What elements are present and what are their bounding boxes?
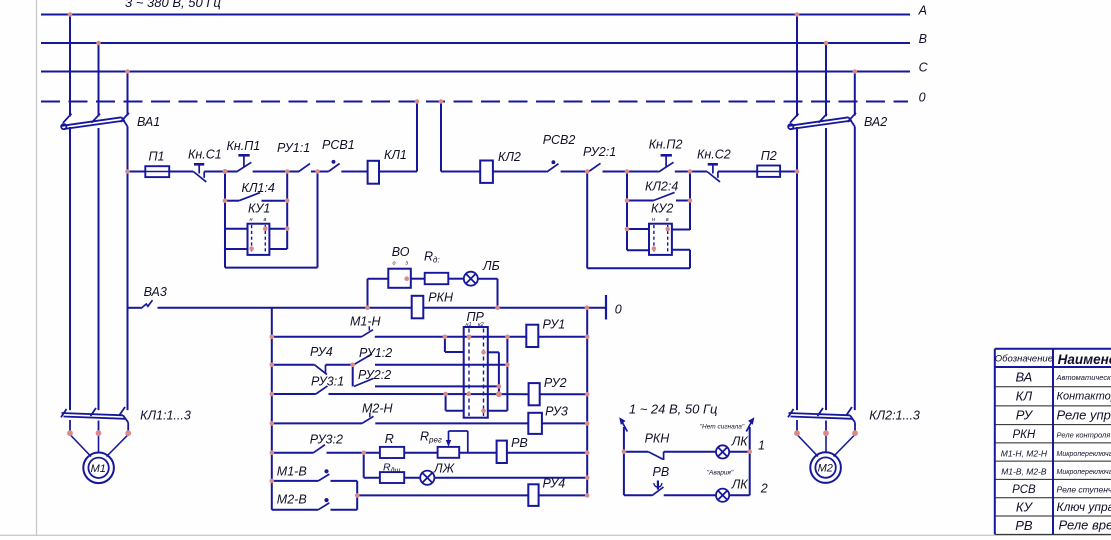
svg-text:Кн.С1: Кн.С1 xyxy=(188,148,222,162)
frame border gray vertical xyxy=(36,0,38,535)
switch VA3 xyxy=(128,300,153,308)
svg-text:ВА: ВА xyxy=(1015,369,1032,384)
svg-text:РУ1:2: РУ1:2 xyxy=(359,346,392,360)
resistor R xyxy=(380,447,404,458)
wire riser to KL2 xyxy=(441,171,480,173)
svg-text:РУ3: РУ3 xyxy=(545,405,568,419)
svg-text:РКН: РКН xyxy=(645,432,671,446)
motor M2 xyxy=(810,452,841,483)
lamp LK1 xyxy=(716,445,729,458)
contact RU2:2 branch xyxy=(353,365,499,387)
lamp LZh xyxy=(420,471,434,485)
svg-text:Ключ управления: Ключ управления xyxy=(1057,500,1111,514)
svg-text:Реле контроля напряжения: Реле контроля напряжения xyxy=(1057,431,1111,440)
wire RU1:1 to node xyxy=(311,171,329,173)
wire left bus xyxy=(271,308,273,510)
wire LB to right riser xyxy=(478,278,498,280)
wire BA1 to KL1 pole B xyxy=(98,128,100,410)
contact M1-N row xyxy=(272,326,527,337)
wire LK2 to right riser xyxy=(729,494,750,496)
wire KU1 bottom loop xyxy=(225,267,318,269)
svg-text:РУ4: РУ4 xyxy=(543,477,566,491)
wire 0-row xyxy=(158,307,607,309)
contact RU1:2 xyxy=(354,354,507,365)
contact M2-V row xyxy=(272,499,357,510)
wire motor M1 leads xyxy=(70,435,91,457)
svg-text:РКН: РКН xyxy=(428,291,454,305)
mode switch PR box xyxy=(464,327,488,418)
svg-text:ВА2: ВА2 xyxy=(864,115,887,129)
wire VO loop left xyxy=(368,278,389,280)
svg-text:Rрег: Rрег xyxy=(420,430,442,445)
component table xyxy=(995,349,1111,535)
svg-text:РУ3:2: РУ3:2 xyxy=(310,433,343,447)
coil KL1 xyxy=(368,161,379,184)
wire PR left-bottom stub xyxy=(446,394,464,411)
wire RU4 to bus xyxy=(539,494,588,496)
svg-text:КЛ2: КЛ2 xyxy=(498,150,521,164)
wire KU2 branch mid xyxy=(626,172,628,251)
wire BA2 drop phase C xyxy=(854,72,856,116)
wire KU1 branch right xyxy=(286,172,288,250)
wire LZh to bus xyxy=(434,477,587,479)
contact RV delayed row2 xyxy=(624,481,716,496)
svg-text:КЛ1: КЛ1 xyxy=(384,148,407,162)
svg-text:РВ: РВ xyxy=(511,436,528,450)
wire KU1 branch left xyxy=(224,172,226,268)
wire VO loop left riser xyxy=(367,279,369,308)
bus 0 dashed neutral xyxy=(41,101,908,103)
wire VO to Rd xyxy=(411,278,425,280)
svg-text:Rдш: Rдш xyxy=(383,462,400,475)
contact RKN nc row1 xyxy=(624,452,716,460)
wire P2 to BA2 column xyxy=(780,171,797,173)
wire KnP1 to node xyxy=(253,171,288,173)
coil RV xyxy=(497,441,507,463)
wire RU2:1 to node xyxy=(603,171,628,173)
wire KU2 branch outer xyxy=(689,172,691,269)
wire RU1 to bus xyxy=(538,336,587,338)
wire BA2 to KL2 pole B xyxy=(825,128,827,410)
pushbutton Kn.S1 stop xyxy=(193,164,206,182)
relay coil RKN xyxy=(412,296,424,319)
coil RU2 xyxy=(529,383,540,405)
wire node to KnS2 xyxy=(690,171,707,173)
svg-text:П2: П2 xyxy=(761,149,777,163)
svg-text:Реле ступенчатой выдержки: Реле ступенчатой выдержки xyxy=(1057,485,1111,495)
svg-text:C: C xyxy=(919,61,929,75)
wire BA2 drop phase A xyxy=(796,15,798,117)
svg-text:1: 1 xyxy=(758,439,765,453)
wire R to Rreg xyxy=(404,452,437,454)
wire BA1 to KL1 pole A xyxy=(69,127,71,410)
wire KU2 bottom loop xyxy=(587,267,690,269)
svg-text:КЛ2:4: КЛ2:4 xyxy=(645,180,678,194)
lamp LB xyxy=(464,272,478,286)
svg-text:Реле управления: Реле управления xyxy=(1057,407,1111,422)
svg-text:М1: М1 xyxy=(91,463,106,475)
svg-text:ЛЖ: ЛЖ xyxy=(433,462,456,476)
node tap phase C control xyxy=(128,171,146,173)
contact KL1:4 xyxy=(225,193,287,201)
svg-text:КЛ2:1...3: КЛ2:1...3 xyxy=(869,409,920,423)
wire BA1 drop phase B xyxy=(98,43,100,116)
svg-text:к2: к2 xyxy=(478,322,484,328)
wire KnS1 to node xyxy=(204,171,225,173)
contactor contacts KL1:1..3 xyxy=(61,407,128,431)
svg-text:Микропереключатели механизмов: Микропереключатели механизмов xyxy=(1057,451,1111,458)
coil RU4 xyxy=(528,484,538,506)
svg-text:РСВ1: РСВ1 xyxy=(322,138,355,152)
svg-text:КУ2: КУ2 xyxy=(651,202,673,216)
breaker BA1 xyxy=(61,113,129,129)
contact M2-N row xyxy=(272,413,529,424)
coil RU1 xyxy=(526,325,538,347)
pushbutton Kn.P2 start xyxy=(659,155,674,172)
svg-text:РУ3:1: РУ3:1 xyxy=(311,375,344,389)
contact RSV2 time xyxy=(547,161,559,172)
fuse P1 xyxy=(145,166,169,177)
bus C xyxy=(41,71,910,73)
svg-text:РКН: РКН xyxy=(1013,429,1036,441)
arrow 24V left source xyxy=(619,417,627,431)
svg-text:ЛК: ЛК xyxy=(731,478,749,492)
wire BA1 drop phase A xyxy=(69,15,71,117)
breaker BA2 xyxy=(788,113,856,129)
svg-text:ВА3: ВА3 xyxy=(144,285,167,299)
svg-text:М1-Н: М1-Н xyxy=(350,315,382,329)
contact RU1:1 xyxy=(287,164,310,172)
svg-text:Кн.П2: Кн.П2 xyxy=(649,138,683,152)
svg-text:Обозначение: Обозначение xyxy=(995,354,1053,365)
svg-text:Кн.С2: Кн.С2 xyxy=(697,148,731,162)
svg-text:о: о xyxy=(393,261,396,267)
wire KL1 to 0-bus riser xyxy=(379,171,417,173)
svg-text:"Нет сигнала": "Нет сигнала" xyxy=(700,424,745,431)
contact RU4 nc xyxy=(272,365,353,375)
svg-text:A: A xyxy=(918,4,927,18)
bus A xyxy=(41,14,910,16)
svg-text:М2: М2 xyxy=(818,463,833,475)
svg-text:B: B xyxy=(919,32,927,46)
svg-text:0: 0 xyxy=(615,303,622,317)
svg-text:Наименование: Наименование xyxy=(1058,352,1111,367)
wire 24V right riser xyxy=(749,427,751,495)
wire VO loop right riser xyxy=(497,279,499,308)
pushbutton Kn.P1 start xyxy=(225,155,251,172)
wire M1V-M2V join riser xyxy=(356,481,358,510)
svg-text:в: в xyxy=(264,217,267,223)
key switch KU1 xyxy=(225,224,287,255)
svg-text:М1-В: М1-В xyxy=(277,465,307,479)
contact RU3:1 xyxy=(272,386,529,394)
svg-text:в: в xyxy=(666,217,669,223)
svg-text:КЛ1:4: КЛ1:4 xyxy=(242,181,275,195)
wire KU1 loop riser xyxy=(317,172,319,268)
wire RSV2 to node xyxy=(561,171,588,173)
resistor Rdsh xyxy=(380,472,404,483)
svg-text:КУ: КУ xyxy=(1016,500,1034,515)
svg-text:РУ1: РУ1 xyxy=(543,318,566,332)
wire node to KnP2 xyxy=(627,171,659,173)
svg-text:М2-Н: М2-Н xyxy=(362,402,394,416)
wire RU4 row xyxy=(357,494,528,496)
svg-text:РУ: РУ xyxy=(1016,408,1034,423)
svg-text:РУ2: РУ2 xyxy=(544,376,567,390)
svg-text:ЛК: ЛК xyxy=(731,435,749,449)
svg-text:РВ: РВ xyxy=(1015,518,1033,533)
svg-text:Автоматический выключатель: Автоматический выключатель xyxy=(1056,373,1111,382)
contact RU2:1 xyxy=(589,163,601,171)
contact RSV1 time xyxy=(318,161,340,172)
wire right bus lower xyxy=(586,308,588,496)
svg-text:КЛ1:1...3: КЛ1:1...3 xyxy=(140,409,191,423)
svg-text:0: 0 xyxy=(919,91,926,105)
svg-text:Rд:: Rд: xyxy=(424,250,440,265)
rectifier VO xyxy=(388,269,411,288)
svg-text:Контактор пусковой: Контактор пусковой xyxy=(1057,391,1111,403)
svg-text:1 ~ 24 В, 50 Гц: 1 ~ 24 В, 50 Гц xyxy=(629,402,718,417)
wire BA2 drop phase B xyxy=(825,43,827,116)
wire riser to 0 bus left xyxy=(416,102,418,172)
svg-text:РУ2:2: РУ2:2 xyxy=(358,368,391,382)
wire RU3 to bus xyxy=(542,422,587,424)
svg-text:М2-В: М2-В xyxy=(277,493,307,507)
key switch KU2 xyxy=(627,224,690,255)
wire PR right-top stub xyxy=(488,352,499,394)
resistor Rd xyxy=(425,273,449,284)
bus B xyxy=(41,42,910,44)
wire 24V left riser xyxy=(623,427,625,495)
wire PR right-bottom stub xyxy=(488,337,508,411)
wire KnP2 to node xyxy=(675,171,690,173)
svg-text:М1-Н, М2-Н: М1-Н, М2-Н xyxy=(1001,448,1048,458)
wire RU2 to bus xyxy=(540,393,588,395)
wire PR left-top stub xyxy=(445,337,464,352)
wire Rdsh to LZh xyxy=(404,477,420,479)
svg-text:"Авария": "Авария" xyxy=(707,470,734,477)
frame border gray horizontal xyxy=(0,534,1111,536)
wire P1 to KnS1 xyxy=(169,171,193,173)
svg-text:н1: н1 xyxy=(466,322,472,328)
svg-text:КУ1: КУ1 xyxy=(248,202,270,216)
wire KnS2 to P2 xyxy=(718,171,757,173)
arrow 24V right source xyxy=(746,417,754,431)
wire riser to Rdsh xyxy=(364,477,380,479)
wire riser to 0 bus right xyxy=(440,102,442,172)
wire BA1 drop phase C xyxy=(127,72,129,116)
wire motor M2 leads xyxy=(797,435,818,457)
svg-text:3 ~ 380 В, 50 Гц: 3 ~ 380 В, 50 Гц xyxy=(125,0,221,10)
wire Rdsh branch riser xyxy=(363,453,365,478)
wire Rreg to RV xyxy=(459,452,496,454)
svg-text:РУ2:1: РУ2:1 xyxy=(583,145,616,159)
svg-text:ВО: ВО xyxy=(392,245,410,259)
wire KL2 to RSV2 xyxy=(493,171,547,173)
svg-text:П1: П1 xyxy=(149,150,165,164)
svg-text:з: з xyxy=(405,261,409,267)
wire BA2 to KL2 pole A xyxy=(796,127,798,410)
svg-text:ЛБ: ЛБ xyxy=(482,259,500,273)
svg-text:2: 2 xyxy=(760,482,768,496)
wire LK1 to right riser xyxy=(729,451,750,453)
terminal 0 xyxy=(605,295,607,320)
fuse P2 xyxy=(757,166,780,177)
svg-text:РУ4: РУ4 xyxy=(310,345,333,359)
wire RV to bus xyxy=(507,452,587,454)
svg-text:КЛ: КЛ xyxy=(1016,388,1033,403)
svg-text:Кн.П1: Кн.П1 xyxy=(227,139,261,153)
svg-text:РУ1:1: РУ1:1 xyxy=(277,141,310,155)
motor M1 xyxy=(83,453,114,484)
wire Rd to LB xyxy=(448,278,464,280)
rheostat Rreg xyxy=(438,431,468,458)
svg-text:ВА1: ВА1 xyxy=(137,115,160,129)
wire right bus upper xyxy=(586,172,588,269)
svg-text:н: н xyxy=(652,217,655,223)
coil RU3 xyxy=(528,413,542,434)
contact KL2:4 xyxy=(627,192,690,200)
svg-text:РСВ: РСВ xyxy=(1012,484,1036,496)
lamp LK2 xyxy=(716,489,729,502)
svg-text:Реле времени: Реле времени xyxy=(1059,518,1111,533)
contact RU3:2 xyxy=(272,445,380,453)
pushbutton Kn.S2 stop xyxy=(707,164,720,182)
svg-text:н: н xyxy=(250,217,253,223)
svg-text:РВ: РВ xyxy=(653,465,670,479)
svg-text:РСВ2: РСВ2 xyxy=(543,133,576,147)
wire RSV1 to KL1 xyxy=(341,171,367,173)
contact M1-V row xyxy=(272,470,357,481)
svg-text:М1-В, М2-В: М1-В, М2-В xyxy=(1001,467,1047,477)
wire BA1 to KL1 pole C xyxy=(127,127,129,411)
svg-text:R: R xyxy=(385,432,394,446)
contactor contacts KL2:1..3 xyxy=(788,407,855,431)
coil KL2 xyxy=(480,161,493,183)
wire BA2 to KL2 pole C xyxy=(854,127,856,411)
svg-text:Микропереключатели механизмов: Микропереключатели механизмов xyxy=(1057,469,1111,476)
